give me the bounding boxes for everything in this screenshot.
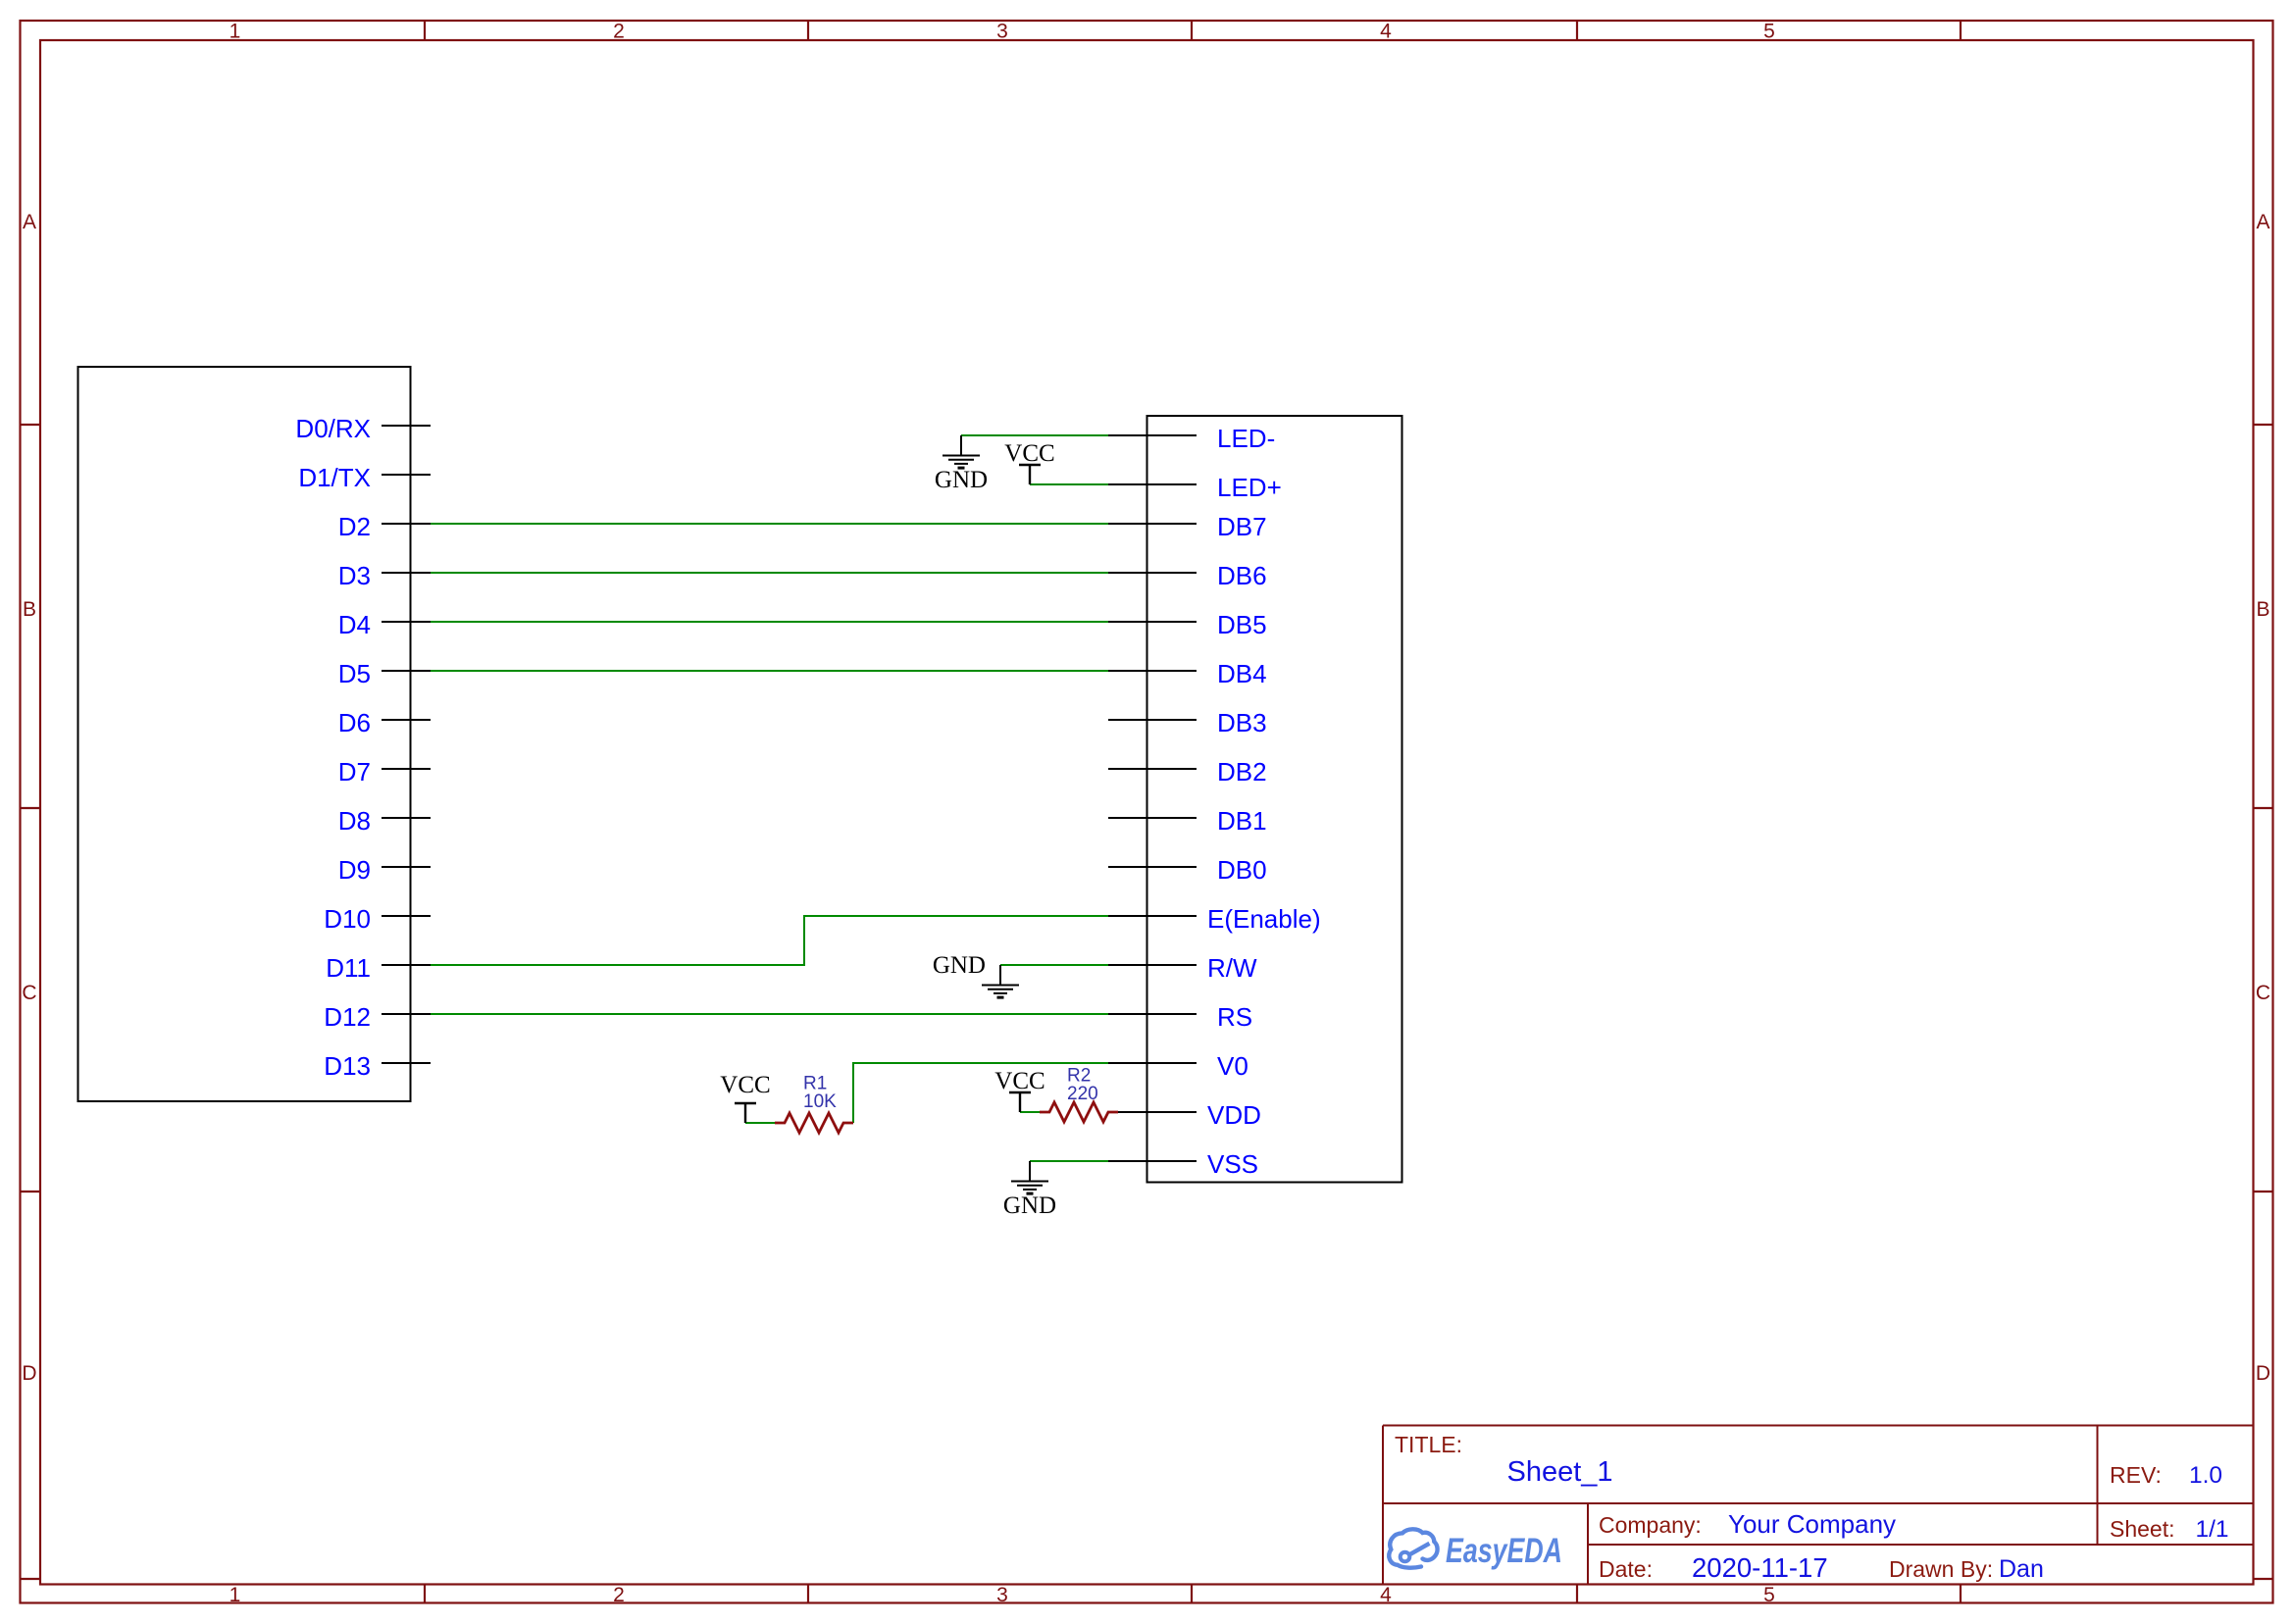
wire D12 to RS [431,1013,1108,1015]
svg-text:C: C [2256,982,2270,1004]
svg-text:VCC: VCC [720,1072,770,1098]
svg-text:5: 5 [1763,1584,1775,1606]
svg-text:A: A [23,211,36,233]
svg-text:4: 4 [1380,1584,1392,1606]
pin D12 [324,1002,431,1032]
svg-text:Dan: Dan [1999,1555,2044,1583]
svg-text:2020-11-17: 2020-11-17 [1692,1552,1828,1583]
svg-text:D4: D4 [338,610,371,639]
pin D5 [338,659,431,688]
svg-text:VSS: VSS [1207,1149,1258,1179]
wire D2 to DB7 [431,523,1108,525]
power VCC3 (R2) [1009,1092,1031,1112]
ground GND1 (LED-) [943,435,980,468]
svg-text:D8: D8 [338,806,371,836]
svg-text:DB5: DB5 [1217,610,1267,639]
svg-text:LED-: LED- [1217,424,1275,453]
title block [1383,1426,2254,1585]
svg-text:1.0: 1.0 [2189,1462,2222,1489]
svg-text:D11: D11 [326,953,371,983]
svg-text:DB1: DB1 [1217,806,1267,836]
wire VCC to R1 [745,1122,775,1124]
pin D10 [324,904,431,934]
pin D8 [338,806,431,836]
svg-text:D10: D10 [324,904,371,934]
svg-text:DB3: DB3 [1217,708,1267,737]
svg-text:Drawn By:: Drawn By: [1889,1556,1993,1582]
svg-text:EasyEDA: EasyEDA [1446,1532,1562,1570]
svg-text:TITLE:: TITLE: [1395,1432,1462,1457]
svg-text:220: 220 [1067,1084,1098,1104]
pin D1/TX [298,463,431,492]
svg-text:D9: D9 [338,855,371,885]
resistor R2 [1040,1066,1118,1123]
svg-text:D: D [2256,1362,2270,1385]
component U1 Arduino [78,367,411,1101]
svg-text:GND: GND [935,467,988,493]
svg-text:D12: D12 [324,1002,371,1032]
svg-text:DB4: DB4 [1217,659,1267,688]
wire VCC to R2 [1020,1111,1040,1113]
svg-text:5: 5 [1763,21,1775,43]
pin E(Enable) [1108,904,1321,934]
pin D4 [338,610,431,639]
svg-text:B: B [2256,598,2269,621]
pin DB0 [1108,855,1267,885]
wire GND to LED- [961,434,1108,436]
pin DB4 [1108,659,1267,688]
svg-text:D5: D5 [338,659,371,688]
svg-text:1: 1 [229,21,241,43]
svg-text:VDD: VDD [1207,1100,1261,1130]
pin LED+ [1108,473,1282,502]
svg-text:C: C [22,982,36,1004]
pin DB3 [1108,708,1267,737]
svg-text:A: A [2256,211,2269,233]
component U2 LCD1602 [1147,416,1402,1183]
svg-text:B: B [23,598,36,621]
pin RS [1108,1002,1252,1032]
wire D3 to DB6 [431,572,1108,574]
power VCC1 (LED+) [1019,465,1041,484]
svg-text:R/W: R/W [1207,953,1257,983]
svg-text:2: 2 [613,1584,625,1606]
svg-text:Company:: Company: [1599,1512,1702,1538]
svg-text:GND: GND [933,952,986,979]
svg-text:GND: GND [1003,1193,1056,1219]
svg-text:1: 1 [229,1584,241,1606]
svg-text:RS: RS [1217,1002,1252,1032]
svg-text:D13: D13 [324,1051,371,1081]
wire GND to VSS [1030,1160,1108,1162]
wire R1 to V0 [853,1063,1108,1123]
svg-text:VCC: VCC [994,1068,1045,1094]
pin D13 [324,1051,431,1081]
svg-text:LED+: LED+ [1217,473,1282,502]
pin LED- [1108,424,1275,453]
svg-text:Date:: Date: [1599,1556,1653,1582]
svg-text:Sheet:: Sheet: [2110,1516,2175,1542]
svg-text:D1/TX: D1/TX [298,463,371,492]
pin D9 [338,855,431,885]
ground GND2 (R/W) [982,965,1019,997]
wire D5 to DB4 [431,670,1108,672]
pin DB6 [1108,561,1267,590]
svg-text:Your Company: Your Company [1728,1509,1896,1539]
pin D11 [326,953,431,983]
EasyEDA logo [1389,1529,1562,1570]
pin VDD [1118,1100,1261,1130]
svg-text:DB2: DB2 [1217,757,1267,787]
wire GND to R/W [1000,964,1108,966]
power VCC2 (R1) [735,1103,756,1123]
pin DB1 [1108,806,1267,836]
svg-text:DB0: DB0 [1217,855,1267,885]
pin D2 [338,512,431,541]
svg-text:DB7: DB7 [1217,512,1267,541]
svg-text:3: 3 [996,1584,1008,1606]
svg-text:D3: D3 [338,561,371,590]
svg-text:3: 3 [996,21,1008,43]
svg-text:E(Enable): E(Enable) [1207,904,1321,934]
pin V0 [1108,1051,1248,1081]
svg-text:10K: 10K [803,1091,837,1112]
pin DB5 [1108,610,1267,639]
pin D7 [338,757,431,787]
svg-text:4: 4 [1380,21,1392,43]
svg-text:DB6: DB6 [1217,561,1267,590]
svg-text:D0/RX: D0/RX [295,414,371,443]
svg-text:D: D [22,1362,36,1385]
svg-text:2: 2 [613,21,625,43]
svg-text:V0: V0 [1217,1051,1248,1081]
svg-text:D6: D6 [338,708,371,737]
pin D0/RX [295,414,431,443]
svg-text:1/1: 1/1 [2196,1516,2229,1543]
pin DB2 [1108,757,1267,787]
wire VCC to LED+ [1030,483,1108,485]
pin D6 [338,708,431,737]
pin D3 [338,561,431,590]
wire D11 to E(Enable) [431,916,1108,965]
svg-text:Sheet_1: Sheet_1 [1507,1456,1613,1488]
pin DB7 [1108,512,1267,541]
svg-text:D2: D2 [338,512,371,541]
resistor R1 [775,1074,853,1134]
wire D4 to DB5 [431,621,1108,623]
svg-text:VCC: VCC [1004,440,1054,467]
ground GND3 (VSS) [1011,1161,1048,1193]
svg-text:REV:: REV: [2110,1462,2162,1488]
pin R/W [1108,953,1257,983]
svg-text:D7: D7 [338,757,371,787]
pin VSS [1108,1149,1258,1179]
